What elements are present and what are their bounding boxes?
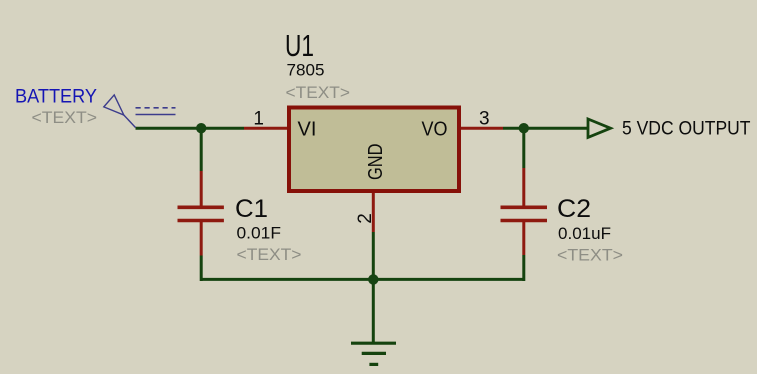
svg-text:2: 2 bbox=[355, 213, 376, 224]
svg-text:0.01F: 0.01F bbox=[237, 224, 282, 243]
svg-text:<TEXT>: <TEXT> bbox=[557, 246, 623, 265]
battery terminal symbol (blue flag) bbox=[104, 95, 124, 115]
battery terminal lead line bbox=[124, 115, 136, 128]
svg-text:<TEXT>: <TEXT> bbox=[286, 83, 351, 102]
svg-text:<TEXT>: <TEXT> bbox=[32, 108, 98, 127]
battery plus solid line bbox=[136, 114, 176, 116]
wire: C2 top lead (red segment) bbox=[522, 168, 525, 206]
wire: C1 top lead (red segment) bbox=[200, 171, 203, 206]
wire: pin 1 stub (red segment) bbox=[244, 127, 288, 130]
svg-text:GND: GND bbox=[365, 144, 387, 181]
wire: C1 top branch (green segment) bbox=[200, 128, 203, 171]
junction node: ground rail / pin 2 bbox=[368, 274, 378, 284]
wire: C1 bottom lead (red segment) bbox=[200, 222, 203, 256]
svg-text:<TEXT>: <TEXT> bbox=[237, 245, 302, 264]
wire: bottom ground rail (green) bbox=[201, 278, 524, 281]
capacitor C2 bottom plate bbox=[501, 219, 548, 223]
svg-text:C1: C1 bbox=[235, 195, 268, 223]
wire: ground rail to ground symbol (green segment) bbox=[372, 279, 375, 342]
wire: pin 3 to output arrow (green segment) bbox=[503, 127, 588, 130]
battery minus dashed line bbox=[136, 107, 176, 109]
wire: C2 top branch (green segment) bbox=[522, 128, 525, 168]
capacitor C1 bottom plate bbox=[178, 219, 224, 223]
ground bbox=[351, 343, 396, 364]
svg-text:BATTERY: BATTERY bbox=[15, 87, 97, 108]
wire: C2 bottom lead (red segment) bbox=[522, 222, 525, 255]
junction node: pin3/C2/output bbox=[519, 123, 529, 133]
svg-text:U1: U1 bbox=[285, 28, 314, 63]
capacitor C1 top plate bbox=[178, 206, 224, 210]
wire: pin 2 stub (red segment) bbox=[372, 193, 375, 232]
svg-text:VI: VI bbox=[298, 119, 317, 141]
svg-text:5 VDC OUTPUT: 5 VDC OUTPUT bbox=[622, 119, 751, 140]
output terminal arrow bbox=[588, 119, 611, 137]
op-amp U1 body (7805 regulator box) bbox=[289, 108, 459, 192]
wire: pin 3 stub (red segment) bbox=[460, 127, 503, 130]
svg-text:0.01uF: 0.01uF bbox=[558, 224, 611, 243]
wire: C1 bottom to ground rail (green segment) bbox=[200, 256, 203, 282]
svg-text:C2: C2 bbox=[557, 195, 591, 223]
junction node: battery/C1/pin1 bbox=[196, 123, 206, 133]
capacitor C2 top plate bbox=[501, 206, 548, 210]
wire: battery to pin 1 (green segment) bbox=[136, 127, 245, 130]
svg-text:1: 1 bbox=[253, 109, 264, 130]
wire: C2 bottom to ground rail (green segment) bbox=[522, 255, 525, 281]
svg-text:7805: 7805 bbox=[287, 61, 325, 80]
svg-text:3: 3 bbox=[479, 109, 490, 130]
wire: pin 2 to ground rail (green segment) bbox=[372, 232, 375, 279]
svg-text:VO: VO bbox=[422, 119, 448, 141]
